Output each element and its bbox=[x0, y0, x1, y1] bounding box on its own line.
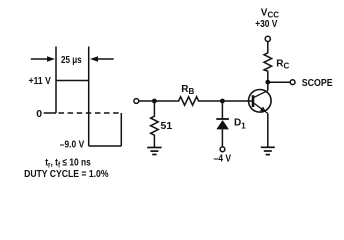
Vcc terminal (open circle) bbox=[265, 36, 270, 41]
svg-text:+11 V: +11 V bbox=[29, 75, 51, 87]
pulse top segment bbox=[56, 80, 89, 82]
dimension tick / pulse rising edge (left) bbox=[55, 47, 57, 114]
junction node at 51 ohm bbox=[152, 99, 157, 104]
svg-text:0: 0 bbox=[36, 108, 42, 120]
svg-text:51: 51 bbox=[161, 120, 173, 132]
transistor Q1 bbox=[248, 90, 271, 114]
emitter wire down to ground bbox=[267, 113, 269, 147]
junction node at D1 bbox=[220, 99, 225, 104]
resistor RB bbox=[177, 97, 201, 105]
svg-text:DUTY CYCLE = 1.0%: DUTY CYCLE = 1.0% bbox=[24, 168, 109, 180]
ground (emitter) bbox=[261, 147, 275, 154]
svg-text:–4 V: –4 V bbox=[214, 152, 232, 164]
wire node to scope terminal bbox=[268, 81, 290, 83]
wire RB to base bbox=[201, 100, 253, 102]
svg-text:+30 V: +30 V bbox=[255, 18, 277, 30]
dimension tick / pulse falling edge (right) bbox=[88, 47, 90, 147]
input terminal (open circle) bbox=[134, 99, 139, 104]
collector wire up to node bbox=[267, 82, 269, 90]
svg-text:–9.0 V: –9.0 V bbox=[60, 139, 84, 151]
resistor RC bbox=[264, 42, 272, 83]
zero reference dashed line bbox=[59, 112, 122, 114]
ground (51 ohm) bbox=[147, 148, 161, 155]
pulse-width dimension left arrow bbox=[31, 56, 55, 62]
pulse trailing rising edge bbox=[120, 113, 122, 146]
svg-text:25 μs: 25 μs bbox=[61, 54, 82, 66]
zero baseline solid lead-in bbox=[44, 112, 56, 114]
svg-text:SCOPE: SCOPE bbox=[302, 77, 333, 89]
scope terminal (open circle) bbox=[290, 80, 295, 85]
-4V terminal (open circle) bbox=[220, 147, 225, 152]
pulse-width dimension right arrow bbox=[90, 56, 114, 62]
resistor 51 bbox=[151, 101, 159, 147]
wire input to RB bbox=[139, 100, 177, 102]
collector node junction bbox=[265, 80, 270, 85]
diode D1 bbox=[216, 101, 229, 147]
pulse bottom segment bbox=[89, 145, 122, 147]
